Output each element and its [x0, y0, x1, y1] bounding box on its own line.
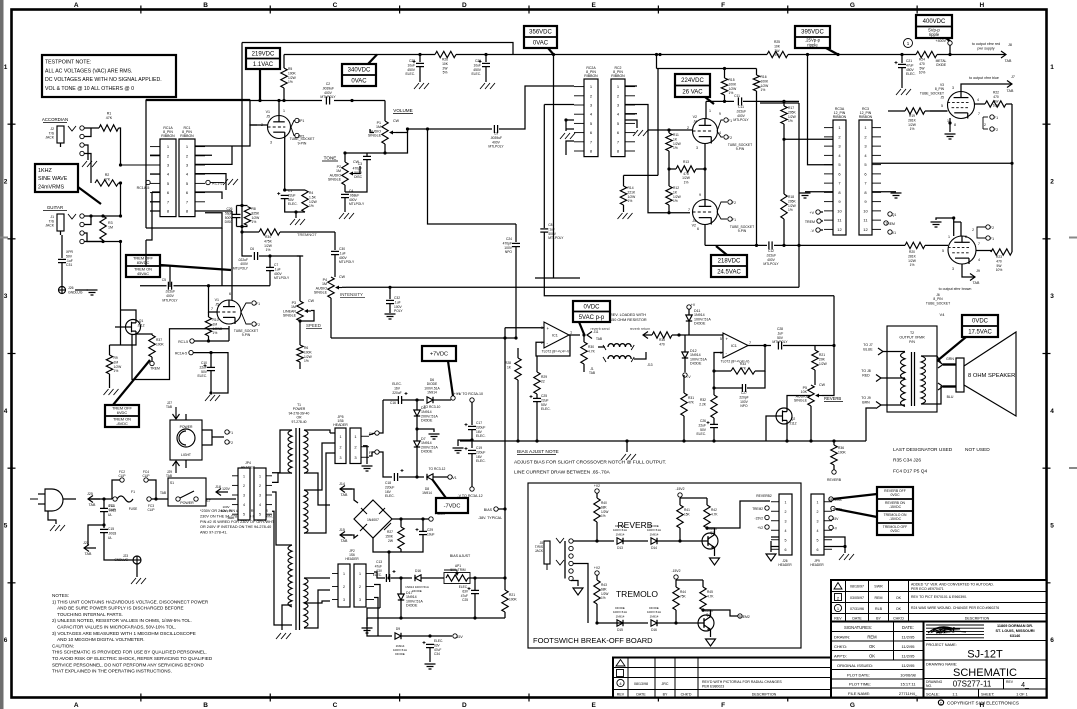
- wire V1A plate up: [278, 101, 280, 116]
- svg-text:470: 470: [993, 95, 999, 99]
- wire RC3A pin8 gnd: [805, 191, 833, 193]
- svg-text:4_: 4_: [1021, 682, 1029, 689]
- wire C20 gnd: [485, 67, 487, 82]
- junction cathode bus: [797, 244, 800, 247]
- svg-text:DIODE: DIODE: [694, 322, 706, 326]
- callout 219VDC/1.1VAC: [246, 48, 280, 69]
- svg-text:T2: T2: [910, 331, 914, 335]
- svg-text:JACK: JACK: [535, 549, 544, 553]
- V4 F1 label: [990, 237, 994, 241]
- svg-text:-V: -V: [810, 229, 814, 233]
- wire rc1a pin8 stub: [150, 210, 160, 212]
- gnd lug symbol bottom: [133, 556, 141, 564]
- svg-text:GNDLUG: GNDLUG: [114, 558, 128, 562]
- wire C12 right: [774, 244, 905, 246]
- svg-text:ELEC.: ELEC.: [906, 72, 916, 76]
- V2A pin9 label: [719, 112, 721, 116]
- T1 secondary heater coil: [304, 490, 308, 533]
- junction rail c25: [535, 439, 538, 442]
- svg-text:J25: J25: [87, 492, 93, 496]
- wire volume top: [384, 101, 386, 122]
- heater bracket V3: [983, 116, 988, 118]
- junction rail r28: [516, 439, 519, 442]
- ground at JP5: [362, 466, 373, 471]
- terminal V3 F1: [990, 115, 994, 119]
- wire Q3 emitter: [714, 549, 716, 556]
- svg-text:9: 9: [719, 112, 721, 116]
- svg-text:5W: 5W: [997, 264, 1003, 268]
- ground at common rail: [621, 454, 636, 460]
- junction cathode: [283, 188, 286, 191]
- svg-text:C25: C25: [541, 394, 547, 398]
- svg-text:C26: C26: [226, 207, 232, 211]
- svg-text:400V: 400V: [737, 114, 746, 118]
- J29 label: [166, 470, 172, 478]
- wire fb left: [714, 370, 731, 372]
- svg-text:C21: C21: [906, 59, 912, 63]
- wire Q3 collector out: [707, 501, 770, 528]
- svg-text:1: 1: [283, 109, 285, 113]
- jp4 label: [241, 461, 256, 469]
- resistor R12 1K: [666, 186, 682, 205]
- ground at C20: [480, 83, 495, 89]
- arrow J8 to output xfmr: [1001, 51, 1006, 58]
- junction D5 top: [415, 398, 418, 401]
- wire R16 top: [756, 69, 758, 76]
- wire RC2 pin1 stub: [625, 85, 637, 87]
- svg-text:450V: 450V: [473, 68, 482, 72]
- junction R13 right: [703, 167, 706, 170]
- svg-text:1%: 1%: [910, 127, 915, 131]
- wire R21 top: [504, 578, 506, 590]
- diode D9: [395, 627, 401, 639]
- svg-text:TAB: TAB: [596, 337, 602, 341]
- -V1 label: [451, 476, 457, 480]
- wire bias lower rail: [367, 617, 505, 619]
- resistor R21b 20K: [812, 350, 828, 370]
- svg-text:TAB: TAB: [341, 493, 348, 497]
- wire tone top: [344, 153, 346, 162]
- svg-text:ST. LOUIS, MISSOURI: ST. LOUIS, MISSOURI: [995, 629, 1034, 633]
- svg-text:SINGLE: SINGLE: [283, 314, 297, 318]
- transistor Q3 2N5087: [702, 533, 718, 549]
- wire V1B grid: [209, 286, 218, 312]
- junction fb left: [712, 369, 715, 372]
- capacitor C20 10uF 450V: [471, 59, 490, 76]
- switch lever: [180, 491, 194, 498]
- wire fb right: [755, 346, 765, 372]
- svg-text:ADDED "U" VER. AND CONVERTED T: ADDED "U" VER. AND CONVERTED TO AUTOCAD.: [911, 583, 994, 587]
- svg-text:4: 4: [259, 503, 261, 507]
- svg-text:CW: CW: [339, 275, 346, 279]
- wire C10 gnd: [210, 393, 212, 394]
- svg-text:-7VDC: -7VDC: [444, 503, 461, 509]
- svg-text:TAB J16: TAB J16: [220, 509, 232, 513]
- terminal -15V2 reverb: [678, 493, 682, 497]
- svg-text:97-278-40: 97-278-40: [291, 420, 306, 424]
- svg-text:1%: 1%: [788, 208, 793, 212]
- junction R4 bottom: [294, 210, 297, 213]
- junction R10 cathode: [207, 339, 210, 342]
- svg-text:RIBBON: RIBBON: [611, 74, 625, 78]
- fs +v2 label: [757, 526, 763, 530]
- ground at Q4: [706, 639, 716, 646]
- junction C23 top: [418, 53, 421, 56]
- wire C16 left: [383, 399, 398, 401]
- junction v2 plate rail: [658, 53, 661, 56]
- jack J8 contact 3: [569, 554, 573, 558]
- jack J1 designator: [45, 215, 54, 228]
- wire D12 top: [684, 335, 686, 352]
- tone underline: [322, 160, 338, 162]
- svg-text:1%: 1%: [684, 180, 689, 184]
- wire R40 bottom: [596, 522, 598, 541]
- bridge rectifier diamond: [354, 500, 392, 538]
- callout 400VDC ripple: [916, 15, 952, 42]
- wire J15 to bridge: [340, 535, 358, 538]
- tab J14: [339, 482, 352, 497]
- wire fc loop2: [148, 480, 156, 499]
- svg-text:TREM: TREM: [885, 222, 895, 226]
- svg-text:220pF: 220pF: [739, 395, 748, 399]
- junction R8 top: [240, 204, 243, 207]
- ground at RC3 pin8: [891, 193, 902, 198]
- wire R32 top: [713, 388, 715, 395]
- svg-text:R34: R34: [265, 235, 271, 239]
- wire lamp bottom: [185, 460, 187, 468]
- svg-text:0VAC: 0VAC: [533, 41, 549, 47]
- svg-text:1/2W: 1/2W: [819, 362, 828, 366]
- svg-text:TO AVOID RISK OF ELECTRIC SHOC: TO AVOID RISK OF ELECTRIC SHOCK, REFER S…: [52, 656, 213, 661]
- svg-text:150 OHM RESISTOR: 150 OHM RESISTOR: [610, 318, 647, 322]
- capacitor C14 .0033: [100, 504, 116, 517]
- junction tone top: [343, 151, 346, 154]
- ground at C4: [339, 213, 354, 219]
- svg-text:4.7K: 4.7K: [588, 349, 596, 353]
- wire C32 dn: [389, 304, 391, 313]
- svg-text:FC4 D17 P5 Q4: FC4 D17 P5 Q4: [893, 469, 927, 475]
- junction B+ RC3A: [806, 53, 809, 56]
- tube V4 pin3: [952, 267, 954, 271]
- svg-text:50K, TRIM: 50K, TRIM: [450, 568, 466, 572]
- svg-text:1/2W: 1/2W: [628, 195, 637, 199]
- wire R31 bottom: [683, 416, 685, 441]
- wire C27 left: [714, 371, 742, 388]
- svg-text:MED: MED: [228, 516, 236, 520]
- grid row numbers and ticks: [4, 64, 1055, 644]
- junction rail q2: [785, 439, 788, 442]
- svg-text:8: 8: [954, 123, 956, 127]
- wire RC1A-5 line: [193, 353, 228, 393]
- svg-text:RC1A-5: RC1A-5: [175, 352, 187, 356]
- svg-text:B: B: [203, 2, 208, 9]
- wire R42 top: [706, 498, 708, 505]
- terminal TREM under R37: [150, 361, 154, 365]
- capacitor C23 10uF 450V: [405, 59, 424, 76]
- svg-text:1%: 1%: [788, 119, 793, 123]
- resistor R26 10K: [435, 51, 456, 74]
- accordion input label: [42, 117, 68, 122]
- V3 F1 label: [994, 116, 998, 120]
- wire trem bus: [331, 337, 516, 339]
- svg-text:TREM: TREM: [805, 220, 815, 224]
- last designator used text: [893, 447, 990, 475]
- svg-text:J18: J18: [215, 485, 221, 489]
- svg-text:Q1: Q1: [892, 213, 897, 217]
- svg-text:7: 7: [978, 112, 980, 116]
- svg-text:BY: BY: [663, 692, 668, 696]
- svg-text:100K: 100K: [288, 71, 297, 75]
- svg-text:JACK: JACK: [45, 224, 54, 228]
- svg-text:6: 6: [785, 548, 787, 552]
- capacitor C8 .1uF: [540, 223, 564, 240]
- wire R11 t: [668, 130, 670, 133]
- svg-text:TREM2: TREM2: [752, 507, 763, 511]
- wire V4 pin4 to R23: [976, 251, 991, 253]
- svg-text:0VDC: 0VDC: [890, 529, 900, 533]
- ground at Q3: [710, 558, 720, 565]
- wire reverb sw line: [573, 540, 597, 542]
- diode D16b: [647, 606, 661, 626]
- resistor R4 1.5K: [302, 190, 318, 212]
- resistor R43 68K: [594, 580, 609, 604]
- GRN label: [946, 357, 954, 361]
- connector RC3A 12 pin ribbon: [824, 107, 847, 235]
- resistor R34 475K: [259, 229, 280, 252]
- svg-text:AND BE SURE POWER SUPPLY IS DI: AND BE SURE POWER SUPPLY IS DISCHARGED B…: [52, 606, 184, 611]
- wire plug to fuse: [63, 498, 76, 500]
- svg-text:400V: 400V: [548, 232, 557, 236]
- tab label switch: [160, 491, 166, 495]
- wire jp5 stub2: [330, 442, 335, 444]
- svg-text:POWER: POWER: [180, 425, 193, 429]
- tube V1 section A: [268, 116, 291, 139]
- wire D17 down: [400, 600, 402, 618]
- svg-text:3: 3: [343, 598, 345, 602]
- tube V1A pin2: [261, 123, 263, 127]
- V1B heater F2: [252, 322, 256, 326]
- svg-text:RIBBON: RIBBON: [584, 74, 598, 78]
- resistor R9 1M: [106, 355, 122, 374]
- svg-text:R43: R43: [601, 583, 607, 587]
- svg-text:224VDC: 224VDC: [681, 78, 704, 84]
- jack J8 designator: [535, 541, 544, 553]
- wire IC1B out: [747, 345, 771, 347]
- svg-text:SLM: SLM: [938, 625, 956, 635]
- ground at R9: [104, 389, 119, 395]
- resistor R27 150K: [385, 527, 404, 549]
- wire R16 bottom: [756, 91, 758, 245]
- junction C21 top: [900, 53, 903, 56]
- svg-text:R27: R27: [387, 530, 393, 534]
- svg-text:ripple: ripple: [929, 32, 940, 37]
- wire D9 to -15V: [401, 635, 452, 637]
- callout 224VDC/26VAC: [675, 74, 714, 104]
- T2 to J8 red: [861, 369, 871, 377]
- wire R11 b: [668, 151, 670, 169]
- wire J2 tip to R1: [84, 127, 99, 129]
- svg-text:C10: C10: [201, 361, 207, 365]
- wire rc1a pin6 down: [146, 192, 152, 240]
- svg-text:MTLPOLY: MTLPOLY: [349, 202, 365, 206]
- svg-text:12: 12: [863, 227, 868, 232]
- svg-text:4: 4: [817, 529, 819, 533]
- -V TO RC3A-12 text: [457, 494, 482, 498]
- svg-text:TO RC3-10: TO RC3-10: [424, 405, 441, 409]
- terminal -V rc3: [816, 228, 820, 232]
- jack J8 levers: [556, 538, 564, 565]
- jack J8 contact 2: [569, 546, 573, 550]
- wire switch to jp4: [206, 498, 236, 500]
- svg-text:+V: +V: [691, 303, 696, 307]
- svg-text:R24 WAS WIRE WOUND. CHANGE PER: R24 WAS WIRE WOUND. CHANGE PER ECO #9602…: [911, 606, 999, 610]
- diode D6 1N914: [424, 378, 440, 403]
- wire IC1A -in loop: [536, 335, 570, 356]
- terminal +V rc3: [816, 210, 820, 214]
- svg-text:63V: 63V: [462, 589, 469, 593]
- junction rc1a5 C10: [209, 351, 212, 354]
- tone label: [324, 156, 337, 161]
- wire RC1 pin2: [195, 154, 212, 156]
- svg-text:PROJECT NAME:: PROJECT NAME:: [926, 643, 957, 647]
- junction R40 out: [595, 539, 598, 542]
- svg-text:+V2: +V2: [594, 484, 600, 488]
- wire J26 pin56 gnd: [771, 541, 779, 547]
- junction R13 left: [667, 167, 670, 170]
- wire T1 HT bottom tap: [304, 473, 330, 505]
- svg-text:5: 5: [941, 104, 943, 108]
- footswitch board outline: [528, 483, 801, 648]
- wire C16 JP5 F1: [379, 400, 383, 433]
- svg-text:D15: D15: [617, 628, 623, 632]
- svg-text:R4: R4: [309, 191, 313, 195]
- svg-text:-15VDC: -15VDC: [889, 517, 902, 521]
- svg-text:+V2: +V2: [757, 526, 763, 530]
- svg-text:100K: 100K: [838, 450, 847, 454]
- svg-text:400V: 400V: [324, 91, 333, 95]
- svg-text:TAB: TAB: [166, 405, 172, 409]
- wire Q4 collector: [703, 610, 711, 615]
- op-amp IC1 section B: [720, 333, 751, 364]
- wire rail gnd: [366, 618, 368, 626]
- Q2 designator: [789, 417, 796, 425]
- junction R2 node: [119, 181, 122, 184]
- svg-text:G: G: [850, 702, 855, 709]
- svg-text:-38V. TYPICAL: -38V. TYPICAL: [478, 516, 502, 520]
- wire C4 gnd: [344, 198, 346, 212]
- fuse clip FC3: [147, 497, 151, 501]
- wire RC1 pin4: [195, 174, 226, 190]
- callout tremolo leader: [836, 509, 877, 517]
- svg-text:DIODE: DIODE: [421, 419, 433, 423]
- svg-text:R42: R42: [711, 508, 717, 512]
- svg-text:BRN: BRN: [862, 400, 870, 404]
- svg-text:D: D: [462, 2, 467, 9]
- wire RC1 pin3 up: [195, 146, 232, 164]
- junction R43 out: [595, 621, 598, 624]
- svg-text:50V: 50V: [201, 370, 208, 374]
- JP5 F1 label: [369, 432, 373, 436]
- svg-text:REVERB2: REVERB2: [756, 494, 772, 498]
- wire R41 top: [679, 498, 681, 505]
- junction C14 C15: [102, 523, 105, 526]
- wire TREM stub: [821, 220, 823, 222]
- svg-text:1:1: 1:1: [952, 693, 957, 697]
- fuse label: [129, 507, 138, 511]
- terminal RC1-5: [206, 180, 210, 184]
- svg-text:1%: 1%: [601, 596, 606, 600]
- svg-text:SINGLE: SINGLE: [314, 291, 328, 295]
- svg-text:J4: J4: [693, 120, 697, 124]
- svg-text:1M: 1M: [114, 360, 119, 364]
- wire node to RC1A pin3: [121, 164, 161, 166]
- resistor R44 75K: [673, 587, 687, 610]
- svg-text:C13: C13: [376, 560, 382, 564]
- ground at J26: [766, 554, 776, 561]
- callout 218VDC/24.5VAC: [711, 246, 747, 277]
- svg-text:1/2W: 1/2W: [309, 200, 318, 204]
- svg-text:100V: 100V: [740, 400, 749, 404]
- diode D13: [613, 524, 627, 544]
- svg-text:C4: C4: [349, 189, 353, 193]
- -V label: [810, 229, 814, 233]
- svg-text:TAB: TAB: [1005, 59, 1012, 63]
- wire R12 top: [668, 169, 670, 186]
- jack J1 contact 1: [80, 214, 84, 218]
- resistor R6 100K: [297, 345, 313, 363]
- connector JP2 socket: [332, 564, 350, 607]
- wire RC1-5 gnd: [210, 182, 224, 184]
- heater bracket V4: [977, 227, 986, 238]
- svg-text:LINE CURRENT DRAW BETWEEN .65-: LINE CURRENT DRAW BETWEEN .65-.70A: [514, 470, 610, 476]
- svg-text:pwr supply: pwr supply: [977, 47, 994, 51]
- capacitor C2 .0047uF: [320, 82, 336, 105]
- svg-text:4: 4: [4, 408, 8, 415]
- svg-text:RIBBON: RIBBON: [833, 115, 847, 119]
- ground at C34: [425, 664, 436, 669]
- junction q3 collector: [705, 526, 708, 529]
- capacitor C28 .1uF: [772, 327, 788, 350]
- svg-text:R5: R5: [288, 67, 292, 71]
- wire C23 drop: [419, 55, 421, 63]
- wire Q4 collector out: [703, 610, 738, 616]
- svg-text:DC VOLTAGES ARE WITH NO SIGNAL: DC VOLTAGES ARE WITH NO SIGNAL APPLIED.: [45, 77, 162, 83]
- svg-text:R30: R30: [588, 345, 594, 349]
- svg-text:C7: C7: [274, 263, 278, 267]
- jack J1 contact 4: [80, 239, 84, 243]
- ground right of RC2: [633, 130, 648, 136]
- wire R1 to node: [119, 128, 121, 165]
- svg-text:10K: 10K: [774, 44, 781, 48]
- svg-text:2: 2: [817, 510, 819, 514]
- tab J15: [339, 528, 352, 543]
- left grey margin strip: [0, 0, 4, 709]
- jack J8 common bar: [564, 541, 566, 579]
- V4 F2 label: [990, 226, 994, 230]
- jack J2 contact 3: [80, 143, 84, 147]
- wire D12 bottom: [684, 358, 686, 372]
- svg-text:REV. LOADED WITH: REV. LOADED WITH: [610, 313, 646, 317]
- capacitor C9 .0039uF: [488, 125, 504, 149]
- svg-text:11/2/95: 11/2/95: [901, 635, 915, 640]
- svg-text:REVERB: REVERB: [824, 396, 841, 401]
- svg-text:5%: 5%: [443, 71, 448, 75]
- jack J2 body: [57, 126, 64, 147]
- wire R21b bottom: [814, 370, 816, 385]
- ground left of RC2A: [560, 133, 575, 139]
- svg-text:5VAC p-p: 5VAC p-p: [579, 315, 605, 321]
- svg-text:C11: C11: [738, 105, 744, 109]
